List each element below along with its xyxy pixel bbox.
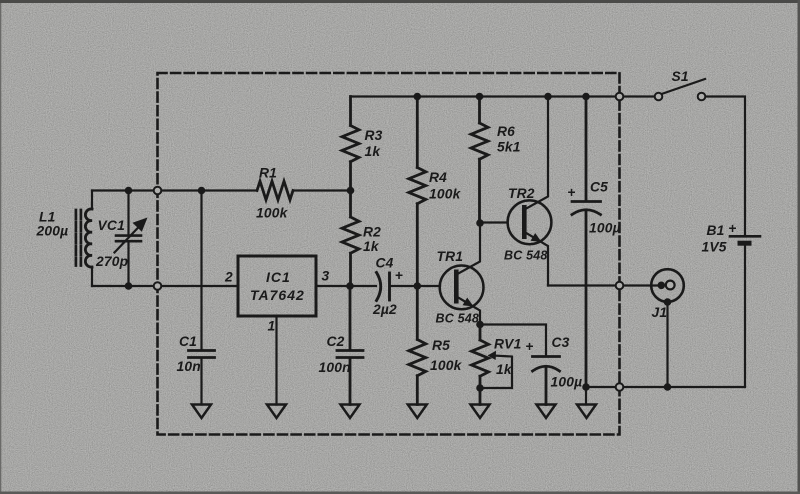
svg-text:5k1: 5k1 [497, 140, 521, 155]
svg-text:R4: R4 [429, 170, 447, 185]
node: C1 branch top [198, 187, 206, 195]
svg-text:C2: C2 [327, 334, 345, 349]
svg-text:100k: 100k [430, 358, 463, 373]
transistor TR2 [508, 200, 552, 244]
svg-text:J1: J1 [652, 305, 668, 320]
terminal: output on boundary [616, 282, 624, 290]
wire: top supply bus [351, 95, 655, 97]
svg-text:100µ: 100µ [551, 375, 583, 390]
jack J1 body [651, 269, 684, 302]
inductor L1 [85, 209, 92, 267]
svg-text:B1: B1 [707, 223, 725, 238]
capacitor C4 (electrolytic) [377, 273, 381, 301]
svg-text:R3: R3 [365, 128, 383, 143]
TR1 base bar [454, 270, 459, 304]
svg-text:1k: 1k [496, 362, 513, 377]
dashed module boundary [158, 73, 620, 435]
node: VC1 top [125, 187, 133, 195]
terminal: ground bus on boundary [616, 383, 624, 391]
resistor R4 [409, 97, 426, 287]
terminal: tank bottom on boundary [154, 282, 162, 290]
svg-text:TR2: TR2 [508, 186, 535, 201]
TR1 emitter wire [457, 297, 481, 325]
svg-text:RV1: RV1 [494, 337, 521, 352]
wire: top tank wire left [92, 189, 257, 191]
ground (IC1 pin1) [267, 405, 286, 419]
switch S1 right contact [698, 93, 706, 101]
svg-text:IC1: IC1 [266, 269, 291, 285]
IC op-amp block IC1 [238, 256, 316, 316]
TR2 collector wire [525, 97, 549, 210]
wire: IC1 pin1 to ground [275, 316, 277, 405]
resistor R2 [342, 191, 359, 287]
scan edge top [0, 0, 800, 3]
capacitor C1 [189, 351, 215, 358]
svg-text:TR1: TR1 [437, 249, 464, 264]
ground (C2) [341, 405, 360, 419]
wire: TR2 emitter to J1 [548, 284, 661, 286]
TR2 emitter wire [525, 232, 549, 286]
RV1 wiper arrow head [488, 351, 497, 360]
svg-text:270p: 270p [95, 254, 128, 269]
svg-text:10n: 10n [177, 359, 201, 374]
svg-text:R6: R6 [497, 124, 515, 139]
svg-text:BC 548: BC 548 [436, 312, 480, 326]
svg-text:100k: 100k [429, 187, 462, 202]
wire: battery minus down [744, 246, 746, 387]
wire: bus after switch to battery [706, 97, 746, 235]
svg-text:1k: 1k [365, 144, 382, 159]
wire: IC1 pin3 output [316, 285, 376, 287]
TR2 base bar [522, 205, 527, 239]
TR1 collector wire [457, 223, 481, 275]
node: TR1 emitter junction [476, 321, 484, 329]
wire: top tank wire right of R1 [293, 189, 351, 191]
node: RV1 bottom [476, 384, 484, 392]
potentiometer RV1 [472, 325, 489, 405]
resistor R6 [471, 97, 488, 224]
ground (bottom bus) [577, 405, 596, 419]
node: VC1 bottom [125, 282, 133, 290]
TR2 emitter arrow [531, 233, 542, 242]
ground (R5) [408, 405, 427, 419]
wire: J1 sleeve to ground bus [666, 302, 668, 387]
svg-text:1: 1 [268, 319, 276, 334]
svg-text:2: 2 [224, 270, 233, 285]
wire: C4 to TR1 base [390, 285, 440, 287]
svg-text:+: + [729, 221, 737, 236]
resistor R3 [342, 97, 359, 191]
svg-text:C4: C4 [376, 256, 394, 271]
wire: C1 branch vertical [200, 191, 202, 405]
switch S1 lever [662, 79, 706, 94]
ground (RV1) [471, 405, 490, 419]
node: J1 bottom contact [664, 298, 672, 306]
svg-text:L1: L1 [39, 210, 56, 225]
svg-text:TA7642: TA7642 [250, 287, 305, 303]
svg-text:+: + [395, 268, 403, 283]
node: R6 top on bus [476, 93, 484, 101]
scan edge right [798, 0, 800, 494]
scan edge left [0, 0, 1, 494]
svg-text:S1: S1 [672, 69, 689, 84]
svg-text:R2: R2 [363, 225, 381, 240]
svg-text:200µ: 200µ [36, 224, 69, 239]
resistor R1 [257, 181, 293, 200]
node: C5 bottom on ground bus [582, 383, 590, 391]
svg-text:C1: C1 [179, 334, 197, 349]
battery B1 negative plate [738, 241, 752, 246]
open terminals on dashed boundary and switch [154, 93, 706, 391]
node: R4 top on bus [414, 93, 422, 101]
svg-text:R1: R1 [259, 166, 277, 181]
wire: TR1 emitter to C3 [480, 325, 546, 357]
node: R1/R2/R3 junction [347, 187, 355, 195]
node: R2/C2 on pin3 wire [346, 282, 354, 290]
wire: bottom ground bus [586, 386, 745, 388]
terminal: tank top on boundary [154, 187, 162, 195]
capacitor C3 (electrolytic) [533, 357, 560, 405]
node: C5 top on bus [582, 93, 590, 101]
RV1 wiper wire [480, 356, 512, 389]
svg-text:C5: C5 [590, 180, 608, 195]
svg-text:1V5: 1V5 [702, 240, 727, 255]
node: J1 tip wire [658, 282, 666, 290]
node: J1 sleeve on ground bus [664, 383, 672, 391]
transistor TR1 [440, 266, 484, 310]
node: R6/TR2 base/TR1 collector [476, 219, 484, 227]
wire: ground stub below bus [585, 387, 587, 405]
svg-text:+: + [526, 339, 534, 354]
ground (C1) [192, 405, 211, 419]
TR2 base wire [480, 221, 508, 223]
variable capacitor VC1 [116, 236, 141, 242]
wire: L1 left branch [91, 191, 93, 210]
svg-text:100µ: 100µ [589, 221, 621, 236]
VC1 arrow head [133, 218, 148, 232]
svg-text:C3: C3 [552, 335, 570, 350]
wire: bottom tank wire to IC1 pin2 [92, 285, 238, 287]
node: C4/R4/R5 junction [414, 282, 422, 290]
terminal: supply bus on boundary [616, 93, 624, 101]
svg-text:R5: R5 [432, 338, 450, 353]
svg-text:2µ2: 2µ2 [372, 302, 397, 317]
capacitor C5 (electrolytic) [572, 97, 601, 388]
L1 ferrite core [76, 210, 81, 266]
capacitor C2 [337, 286, 363, 405]
TR1 emitter arrow [463, 298, 474, 307]
resistor R5 [409, 286, 426, 405]
svg-text:100n: 100n [319, 360, 351, 375]
switch S1 left contact [655, 93, 663, 101]
battery B1 [730, 235, 760, 238]
node: TR2 collector on bus [544, 93, 552, 101]
svg-text:+: + [568, 185, 576, 200]
svg-text:VC1: VC1 [98, 218, 125, 233]
svg-text:100k: 100k [256, 206, 289, 221]
ground (C3) [537, 405, 556, 419]
jack J1 tip ring [666, 281, 675, 290]
svg-text:1k: 1k [363, 239, 380, 254]
scan edge bottom [0, 492, 800, 494]
svg-text:BC 548: BC 548 [504, 249, 548, 263]
svg-text:3: 3 [322, 269, 330, 284]
wire: VC1 branch [127, 191, 129, 287]
